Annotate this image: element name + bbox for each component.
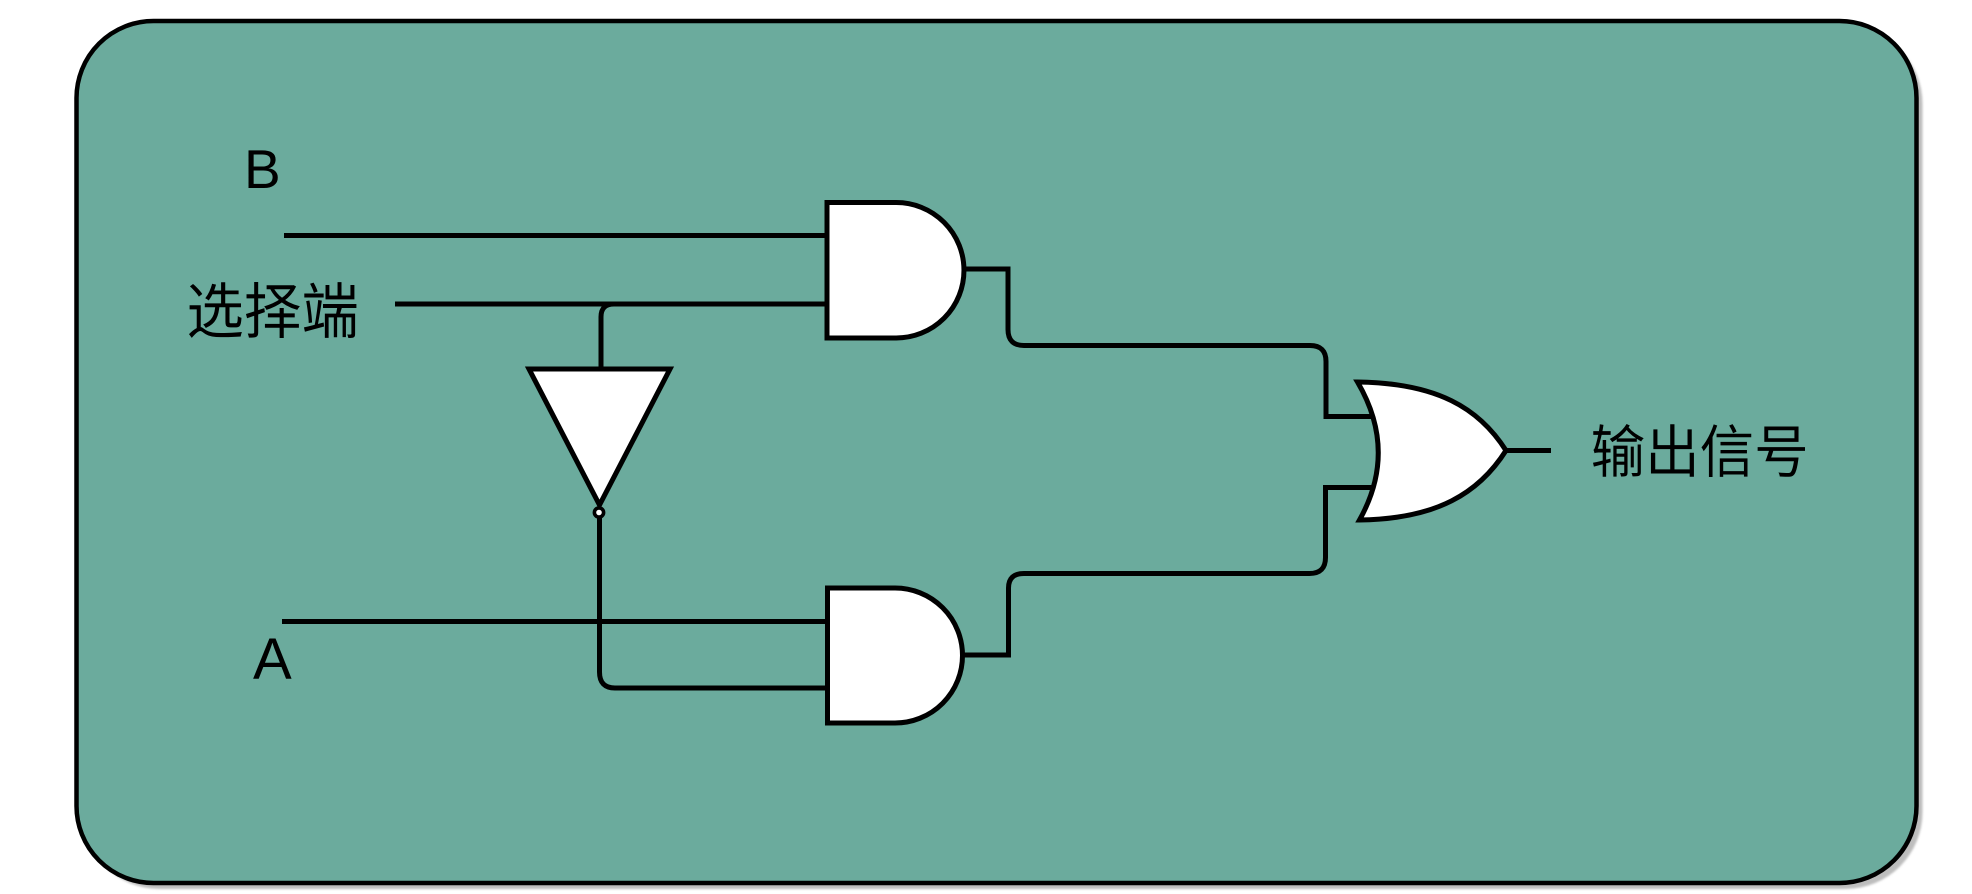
wire AND2 output to OR input 2	[960, 488, 1378, 656]
inverter bubble	[594, 508, 603, 517]
wire input B to AND1	[284, 233, 830, 238]
wire inverter output down and to AND2 lower input	[600, 516, 831, 688]
inverter U1 triangle	[529, 369, 670, 505]
svg-text:A: A	[253, 627, 292, 692]
wire branch select to inverter	[601, 304, 614, 372]
label 输出信号	[1593, 424, 1805, 477]
wire OR output	[1500, 448, 1551, 453]
AND gate bottom	[828, 588, 963, 723]
AND gate top	[827, 203, 964, 339]
OR gate	[1358, 382, 1507, 520]
wire input A to AND2 upper input	[282, 619, 830, 624]
wire AND1 output to OR input 1	[962, 269, 1378, 417]
label 选择端	[189, 282, 356, 338]
svg-text:B: B	[244, 138, 281, 200]
wire select input to AND1 lower input	[395, 302, 830, 307]
